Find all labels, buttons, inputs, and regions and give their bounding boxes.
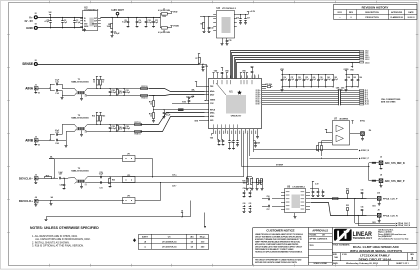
svg-text:▶ FPGA_CLK_N: ▶ FPGA_CLK_N <box>395 224 411 227</box>
svg-text:J5-15: J5-15 <box>365 104 369 106</box>
svg-text:J5-13: J5-13 <box>365 102 369 104</box>
capacitor C16 VCM <box>186 97 194 104</box>
net flag on option net <box>181 210 184 218</box>
wire to inductors <box>160 14 162 28</box>
wire bus OUT0 <box>262 89 360 92</box>
capacitor C26 diff <box>123 124 130 132</box>
svg-text:J5-5: J5-5 <box>365 94 368 96</box>
svg-text:C15: C15 <box>229 40 232 42</box>
svg-text:3: 3 <box>411 257 413 261</box>
approvals box <box>309 229 333 266</box>
resistor R15 bias <box>99 112 105 125</box>
capacitor C37 bypass <box>288 74 294 87</box>
resistor R8 bias <box>93 76 99 89</box>
bypass rail OVDD bottom <box>346 86 358 88</box>
resistor R14 divider <box>149 113 155 123</box>
svg-text:0.1µF: 0.1µF <box>305 79 309 81</box>
svg-text:1µF: 1µF <box>139 22 142 24</box>
wire AINB- line <box>87 131 141 133</box>
resistor R16 diff <box>117 124 122 132</box>
U5 ground stub <box>294 213 297 219</box>
svg-text:REVISION HISTORY: REVISION HISTORY <box>362 6 389 10</box>
capacitor C35 <box>236 134 239 147</box>
wire AINA <box>37 84 54 91</box>
zone ticks right <box>416 34 418 36</box>
svg-text:J6: J6 <box>380 156 382 158</box>
svg-text:J5-3: J5-3 <box>365 92 368 94</box>
svg-text:100k: 100k <box>107 26 111 28</box>
wire divider tap <box>153 108 178 111</box>
wire AINB <box>37 135 54 141</box>
jumper JP3 <box>123 195 136 203</box>
svg-text:1k: 1k <box>102 81 104 83</box>
wire U2 output rail <box>101 16 161 19</box>
U1 bottom pin labels <box>213 124 256 134</box>
svg-text:J3: J3 <box>35 174 37 176</box>
resistor R14 bias <box>92 112 98 125</box>
svg-text:C58: C58 <box>243 188 246 190</box>
svg-text:0.1µF: 0.1µF <box>166 114 170 116</box>
date block <box>332 261 417 266</box>
U1 pdn pin wire <box>195 82 205 87</box>
connector J8 ADC_SYS_REF_P <box>369 166 405 187</box>
svg-text:1µF: 1µF <box>155 22 158 24</box>
title text <box>332 244 417 254</box>
svg-text:SENSE: SENSE <box>22 62 33 66</box>
svg-text:IN: IN <box>84 21 86 23</box>
customer notice box <box>253 229 309 264</box>
wire V+ rail <box>37 17 83 19</box>
wire into T1 <box>61 84 75 100</box>
connector J3 DEVCLK- <box>19 174 38 183</box>
capacitor C63 U5 right <box>310 188 320 197</box>
svg-text:DATE: DATE <box>408 11 414 14</box>
capacitor C12 at U3 input <box>208 16 214 32</box>
capacitor C14 <box>55 89 62 95</box>
svg-text:TITLE: SCHEMATIC: TITLE: SCHEMATIC <box>333 244 350 247</box>
wire serial net 4 <box>235 58 360 79</box>
svg-text:OUTC+: OUTC+ <box>255 98 260 100</box>
svg-text:TECH: TECH <box>310 245 314 247</box>
wire FPGA_CLK_N tap <box>358 215 411 227</box>
svg-text:0.1µF: 0.1µF <box>55 130 59 132</box>
svg-text:U3: U3 <box>217 6 221 10</box>
svg-text:JP1: JP1 <box>127 153 130 155</box>
svg-text:0.1µF: 0.1µF <box>76 22 80 24</box>
capacitor C8 <box>122 17 129 28</box>
svg-text:VDD: VDD <box>173 12 178 14</box>
regulator U2 LT1763-1.8 <box>80 5 101 30</box>
net flag 3.3V <box>247 11 256 15</box>
capacitor C16 <box>236 14 242 24</box>
net flag VDD top3 <box>240 71 248 75</box>
capacitor C38 bypass <box>295 74 301 87</box>
svg-text:ECO: ECO <box>338 12 343 14</box>
svg-text:JP2: JP2 <box>127 175 130 177</box>
net flag VIN <box>49 12 53 17</box>
svg-text:1206: 1206 <box>162 16 166 18</box>
capacitor C61 <box>249 203 252 213</box>
svg-text:0.1µF: 0.1µF <box>55 80 59 82</box>
svg-text:C31: C31 <box>99 187 102 189</box>
svg-text:2.2pF: 2.2pF <box>112 92 117 94</box>
wire sysref riser <box>241 134 243 167</box>
svg-text:R18 10: R18 10 <box>135 134 141 136</box>
linear technology logo <box>334 229 372 241</box>
net flag VDD top2 <box>225 71 229 75</box>
resistor R7 on sense <box>195 54 200 65</box>
svg-text:0.1µF: 0.1µF <box>327 79 331 81</box>
zone ticks bottom <box>49 264 51 267</box>
svg-text:J10: J10 <box>377 193 380 195</box>
wire into T2 <box>62 125 75 148</box>
svg-text:C29: C29 <box>99 172 102 174</box>
U1 sense pin wire <box>205 76 207 101</box>
notes text <box>30 226 99 247</box>
svg-text:LTC2158UK-14: LTC2158UK-14 <box>162 241 177 244</box>
capacitor C30 top <box>250 67 254 75</box>
svg-text:DESCRIPTION: DESCRIPTION <box>365 12 379 14</box>
svg-text:0.1µF: 0.1µF <box>320 79 324 81</box>
resistor R13 divider <box>149 96 155 113</box>
svg-text:C65: C65 <box>361 190 364 192</box>
net flag VDD18 top <box>212 71 218 75</box>
svg-text:C66: C66 <box>361 207 364 209</box>
capacitor C49 under U1 <box>254 141 261 148</box>
svg-text:DEVCLK−: DEVCLK− <box>19 176 33 180</box>
svg-text:AINB: AINB <box>25 138 33 142</box>
wire VCM to U1 <box>172 102 205 104</box>
svg-text:3. R16 IS OPTIONAL AT THE FIN: 3. R16 IS OPTIONAL AT THE FINAL VERSION. <box>32 245 84 248</box>
comparator U7 <box>333 118 350 145</box>
resistor R23 term <box>261 179 264 191</box>
test point 1.8V OUT <box>111 8 124 18</box>
svg-text:2.2pF: 2.2pF <box>112 128 117 130</box>
svg-text:J8: J8 <box>380 174 382 176</box>
wire serial net 5 <box>236 60 360 79</box>
ground at U2 input <box>83 28 86 32</box>
svg-text:0.1µF: 0.1µF <box>148 22 152 24</box>
svg-text:Msps: Msps <box>200 237 206 239</box>
wire AINA+ line <box>87 88 148 90</box>
svg-text:R19: R19 <box>46 175 49 177</box>
zone ticks left <box>7 34 10 36</box>
part number block <box>332 253 417 262</box>
turret E1 V+ <box>24 13 37 23</box>
capacitor C18 tap <box>163 109 171 118</box>
capacitor C15 at U3 gnd <box>226 38 232 46</box>
bus label C48-C55 <box>336 87 344 92</box>
bus terminals J5 <box>360 90 369 106</box>
svg-text:IC NO.: IC NO. <box>342 254 348 256</box>
wire SENSE net <box>37 64 199 66</box>
wire CLK+ line <box>87 175 243 177</box>
svg-text:SHDN: SHDN <box>84 26 88 28</box>
svg-text:SHEET 1 OF 1: SHEET 1 OF 1 <box>396 263 408 265</box>
svg-text:OUT: OUT <box>94 18 97 20</box>
capacitor C24 <box>55 139 62 145</box>
resistor R5 <box>107 17 113 32</box>
wire into T3 <box>68 177 75 180</box>
svg-text:C59: C59 <box>249 188 252 190</box>
ferrite bead FB1 <box>333 198 339 200</box>
capacitor C28 shunt <box>60 178 66 190</box>
svg-text:U1: U1 <box>229 89 233 93</box>
capacitor C31 clk- <box>99 181 102 189</box>
svg-text:▶ SYNC_P: ▶ SYNC_P <box>358 157 370 160</box>
svg-text:L1: L1 <box>163 8 165 10</box>
svg-text:SCALE = NONE: SCALE = NONE <box>314 262 328 265</box>
capacitor C20 diff <box>109 88 116 96</box>
U1 right pin labels <box>255 89 260 106</box>
bypass ground OVDD <box>345 87 348 92</box>
svg-text:CKT: CKT <box>322 235 325 237</box>
U3 ground stub <box>221 38 224 46</box>
svg-text:FPGA_CLK_P: FPGA_CLK_P <box>383 197 398 200</box>
wire SYSREF net <box>242 164 370 166</box>
svg-text:0.1µF: 0.1µF <box>99 174 103 176</box>
svg-text:E1: E1 <box>35 13 37 15</box>
svg-text:C17: C17 <box>247 18 250 20</box>
svg-text:OUTC−: OUTC− <box>255 100 260 102</box>
svg-text:49.9: 49.9 <box>118 92 121 95</box>
svg-text:SYNC: SYNC <box>360 120 366 122</box>
svg-text:1µF: 1µF <box>64 22 67 24</box>
wire option net <box>45 201 191 221</box>
capacitor C42 bypass <box>325 74 331 87</box>
capacitor C40 bypass <box>310 74 316 87</box>
svg-text:LTC2157UK-14: LTC2157UK-14 <box>162 246 177 249</box>
svg-text:0.1µF: 0.1µF <box>334 79 338 81</box>
svg-text:-Bit: -Bit <box>190 236 194 239</box>
svg-text:J2: J2 <box>35 136 37 138</box>
capacitor C59 <box>249 188 252 198</box>
wire bus OUT1 <box>262 91 360 94</box>
capacitor C2 <box>61 17 67 29</box>
wire AINA+ to U1 <box>149 89 205 92</box>
svg-text:C12: C12 <box>211 28 214 30</box>
capacitor C66 term <box>361 207 364 216</box>
wire bus OUT2 <box>262 93 360 96</box>
svg-text:NOTES: UNLESS OTHERWISE SPECI: NOTES: UNLESS OTHERWISE SPECIFIED <box>30 226 99 230</box>
wire sync riser A <box>253 134 255 153</box>
svg-text:0.1µF: 0.1µF <box>313 79 317 81</box>
svg-text:DEMO CIRCUIT 1814A: DEMO CIRCUIT 1814A <box>359 257 392 261</box>
wire bus OUT7 <box>262 103 360 106</box>
wire AINB- to U1 <box>141 117 205 132</box>
turret E2 GND <box>26 24 37 30</box>
wire bus OUT4 <box>262 97 360 100</box>
svg-text:R26: R26 <box>112 180 115 182</box>
resistor R9 bias <box>99 76 104 89</box>
svg-text:JP3: JP3 <box>127 195 130 197</box>
svg-text:C61: C61 <box>249 203 252 205</box>
svg-text:+3.3V: +3.3V <box>250 11 256 13</box>
svg-text:0.1µF: 0.1µF <box>298 79 302 81</box>
wire serial net 1 <box>231 51 360 79</box>
transformer T2 <box>71 115 88 136</box>
wire GND rail <box>37 27 83 29</box>
svg-text:APPROVALS: APPROVALS <box>312 229 328 233</box>
svg-text:CLARENCE M.: CLARENCE M. <box>390 16 403 19</box>
svg-text:SENSE: SENSE <box>210 100 215 102</box>
capacitor C13 <box>55 80 62 86</box>
svg-text:R17 10: R17 10 <box>135 122 141 124</box>
wire DEVCLK- <box>37 178 44 180</box>
svg-text:OUTB−: OUTB− <box>255 96 260 98</box>
resistor R19 <box>45 175 52 178</box>
wire SYNC_P net <box>250 157 370 160</box>
svg-text:ARE 100 OHMS: ARE 100 OHMS <box>381 100 396 103</box>
wire bus OUT5 <box>262 99 360 102</box>
wire sync riser B <box>249 134 251 157</box>
connector J2 AINB <box>25 136 40 146</box>
capacitor C21 diff <box>123 88 130 96</box>
svg-text:GND: GND <box>26 26 34 30</box>
svg-text:1k: 1k <box>150 103 152 105</box>
wire SYNC_N net <box>254 149 370 152</box>
connector J1 AINA <box>25 84 40 94</box>
wire U7 input A <box>325 129 332 133</box>
U1 top pins <box>214 75 259 80</box>
svg-text:AINA: AINA <box>25 86 33 90</box>
svg-text:V+: V+ <box>29 15 33 19</box>
regulator U3 LT1763-3.3 <box>213 6 237 38</box>
capacitor C62 U5 right <box>312 186 315 197</box>
address text <box>378 229 408 241</box>
op-amp U1 ADC LTC2158 <box>209 79 262 129</box>
svg-text:REV.: REV. <box>410 254 414 256</box>
svg-text:1k: 1k <box>150 115 152 117</box>
jumper JP1 <box>49 153 135 161</box>
svg-text:C56: C56 <box>267 196 270 198</box>
net flag VDD <box>170 12 177 14</box>
svg-text:100: 100 <box>259 182 262 184</box>
net flag VDD bottom <box>210 134 214 140</box>
net 5A riser <box>49 156 55 178</box>
svg-text:0.1µF: 0.1µF <box>291 79 295 81</box>
capacitor C27 series <box>58 172 68 179</box>
assembly options table <box>133 234 209 250</box>
svg-text:BYP: BYP <box>94 26 97 28</box>
resistor R35 term <box>346 205 349 216</box>
svg-text:4V - 6V: 4V - 6V <box>24 19 33 23</box>
net flag VDD bypass <box>280 69 284 74</box>
turret E3 SENSE <box>22 60 37 66</box>
svg-text:C57: C57 <box>267 209 270 211</box>
svg-text:DATE:: DATE: <box>333 262 339 265</box>
net flag VDD serial <box>350 62 354 71</box>
wire AINA- line <box>87 95 148 97</box>
wire sense to U1 <box>206 64 208 76</box>
capacitor C45 bypass <box>351 74 356 87</box>
capacitor C43 bypass <box>332 74 338 87</box>
svg-text:ADC_SYS_REF_P: ADC_SYS_REF_P <box>385 180 405 183</box>
svg-text:R11 10: R11 10 <box>142 86 148 88</box>
svg-text:8.2pF: 8.2pF <box>126 128 131 130</box>
note CML connections <box>381 99 401 103</box>
net flag OVDD bypass <box>343 69 349 74</box>
resistor R31 U7 in <box>321 141 333 157</box>
svg-text:49.9: 49.9 <box>118 128 121 131</box>
svg-text:J5-1: J5-1 <box>365 90 368 92</box>
bypass ground VDD <box>281 87 284 92</box>
wire FPGA_CLK_P tap <box>355 198 411 225</box>
wire to C27 <box>51 177 58 180</box>
resistor R12 series <box>141 95 148 100</box>
off-page stub <box>204 213 206 229</box>
svg-text:R15: R15 <box>102 116 105 118</box>
svg-text:R7: R7 <box>195 58 197 60</box>
svg-text:OUTD−: OUTD− <box>255 104 260 106</box>
svg-text:ASSY: ASSY <box>142 236 148 239</box>
svg-text:APPROVED: APPROVED <box>391 11 403 14</box>
capacitor C41 bypass <box>317 74 323 87</box>
wire clk- to U1 <box>247 134 249 183</box>
capacitor C3 <box>73 17 80 29</box>
svg-text:CLK+: CLK+ <box>172 175 177 177</box>
capacitor C34 refl <box>232 134 235 150</box>
jumper JP2 <box>123 175 136 183</box>
svg-text:J5-7: J5-7 <box>365 96 368 98</box>
capacitor C60 <box>243 203 246 213</box>
wire serial net 2 <box>232 53 360 79</box>
revision history table <box>334 5 418 20</box>
resistor R17 series <box>135 122 142 126</box>
net flag VCC U7 <box>351 121 353 125</box>
resistor R11 series <box>141 86 148 90</box>
svg-text:C60: C60 <box>243 203 246 205</box>
resistor R25 pullup <box>262 84 273 88</box>
svg-text:R35: R35 <box>346 205 349 207</box>
connector J9 FPGA_CLK_N <box>367 210 399 225</box>
svg-text:OUTB+: OUTB+ <box>255 94 260 96</box>
capacitor C56 U5 in <box>262 196 281 201</box>
ferrite bead FB2 <box>178 108 205 111</box>
resistor R4 at U3 input <box>200 16 216 32</box>
wire serial net 6 <box>237 63 360 79</box>
svg-text:Wednesday, February 20, 2013: Wednesday, February 20, 2013 <box>346 263 378 265</box>
connector J13 SYNC <box>350 120 371 140</box>
svg-text:TECHNOLOGY: TECHNOLOGY <box>353 236 372 240</box>
svg-text:SYSREF: SYSREF <box>276 164 283 166</box>
net flag V+ U5 <box>312 181 320 186</box>
capacitor C44 bypass <box>345 74 350 87</box>
wire AINB+ to U1 <box>141 113 205 125</box>
ground U1 pin 58 <box>256 134 259 139</box>
U1 right upper pins <box>262 85 266 89</box>
svg-text:IN: IN <box>84 18 86 20</box>
svg-text:J5-9: J5-9 <box>365 98 368 100</box>
resistor R10 diff <box>117 88 122 96</box>
wire AINA- to U1 <box>149 95 205 99</box>
wire bus OUT6 <box>262 101 360 104</box>
svg-text:02-20-13: 02-20-13 <box>408 17 415 19</box>
capacitor C57 U5 in <box>262 205 281 211</box>
wire U3 output <box>237 14 248 16</box>
capacitor C31 refh <box>218 134 221 146</box>
svg-text:J9: J9 <box>377 210 379 212</box>
zone ticks top <box>49 1 51 4</box>
svg-text:R25 100k: R25 100k <box>266 84 273 86</box>
inductor L2 <box>158 27 171 35</box>
wire JP3 to clock <box>135 182 161 200</box>
net flag OVDD <box>170 26 179 28</box>
wire CLK- line <box>87 183 247 188</box>
capacitor C65 term <box>361 190 364 199</box>
wire FPGA_CLK_P <box>311 198 367 200</box>
capacitor C36 bypass <box>281 74 287 87</box>
